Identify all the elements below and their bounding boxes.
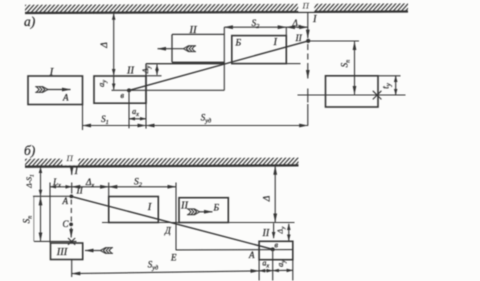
dimension Delta_x, diagram a [286,26,308,28]
svg-text:E: E [170,253,177,263]
arrow Delta_y left, diagram b [273,223,275,238]
node B dot, diagram b [271,247,275,251]
dimension Delta wall to floor line, diagram b [274,166,276,222]
node C dot, diagram b [69,223,73,227]
extension below final block right edge, diagram b [292,260,294,281]
collision star mark at block edge, diagram a [373,91,382,100]
svg-text:A: A [62,196,69,206]
svg-text:Δ: Δ [100,42,110,49]
dimension Lx, diagram b [50,186,72,188]
dimension a_x, diagram b [259,270,273,272]
extension below block I, diagram a [82,105,84,131]
faint extension line left side S_p, diagram b [33,196,35,241]
svg-text:Δ: Δ [263,195,273,202]
extension vertical at S2 right / through D to E, diagram b [175,183,177,251]
spring coil in block II, diagram b [187,209,200,215]
dimension Delta_x, diagram b [72,186,109,188]
dimension Delta (wall to block II top), diagram a [113,14,115,76]
arrow right from spring block II, diagram b [199,211,213,213]
extension vertical below P drop, diagram b [71,183,73,194]
node B dot, diagram a [127,88,131,92]
extension below point B, diagram b [272,252,274,281]
svg-text:I: I [147,202,152,213]
dimension S_p vertical, diagram b [40,197,42,241]
svg-text:A: A [248,250,255,260]
extension below point B, diagram a [128,93,130,129]
horizontal line through B level, diagram b [176,249,293,251]
dimension Delta minus S1, diagram b [40,167,42,196]
right edge of intermediate rect extended to S2 dimension [223,27,225,90]
dashed line from A to C, diagram b [70,200,72,205]
block I start position, diagram a [28,76,83,105]
svg-text:б): б) [24,143,36,158]
wall b bottom surface line [25,165,299,166]
final block rectangle, diagram a [326,76,379,107]
spring coil in launched block II [183,46,196,52]
dimension a_x small, diagram a [129,118,146,120]
block III, diagram b [51,243,83,260]
horizontal line through B, diagram a [112,89,225,91]
extension line for t_y, diagram a [378,75,401,77]
horizontal line right of point, diagram a [308,40,359,42]
svg-text:II: II [188,24,198,36]
white gap behind label P in wall b [63,152,79,165]
dimension S_p vertical, diagram a [354,42,356,95]
floor baseline, diagram b [102,222,295,224]
svg-text:П: П [302,1,310,11]
arrow A from spring in block I [47,89,71,91]
extension at bottom left chain, diagram b [71,260,73,277]
node A dot, diagram b [70,195,74,199]
dimension S1, diagram a [83,125,147,127]
vertical continuation to bottom chain, diagram a [307,89,309,103]
white gap behind label P in wall a [299,0,315,12]
svg-text:II: II [76,187,84,197]
svg-text:III: III [56,247,68,258]
dimension S2, diagram b [109,186,176,188]
trajectory diagonal A to B, diagram b [71,196,272,249]
dimension Delta_y, diagram a [156,65,158,76]
final block II rectangle, diagram b [259,241,293,259]
extension of rest-block bottom edge toward axis, diagram a [286,63,300,65]
extension vertical at Lx left end, diagram b [49,183,51,243]
dimension Delta_y, diagram b [288,224,290,241]
wall (ceiling) of diagram a - hatching [25,3,408,12]
extension below block at B right edge, diagram a [145,103,147,128]
vertical drop line from P, diagram a [307,12,309,38]
arrow into block III from spring, diagram b [85,250,100,252]
svg-text:а): а) [24,14,36,29]
svg-text:в: в [275,241,279,250]
wall a bottom surface line [25,12,408,14]
svg-text:II: II [180,201,188,212]
svg-text:П: П [66,153,74,163]
block II at point B, diagram a [94,76,146,103]
intermediate rectangle (block I displaced), diagram a [145,64,147,104]
dimension t_y, diagram a [395,76,397,95]
svg-text:C: C [63,219,70,229]
block II launched position, diagram a [171,34,173,62]
node: convergence point under P, diagram a [306,39,310,43]
collision cross X at block III, diagram b [68,238,75,245]
svg-text:II: II [126,66,134,77]
extension below final block left edge, diagram b [258,260,260,281]
svg-text:I: I [312,14,317,25]
spring coil in block I, diagram a [35,87,48,93]
extension vertical above block I, diagram b [108,183,110,197]
extension line above block III, diagram b [34,240,77,242]
dimension a_y line, diagram a [113,77,115,90]
extension line for Delta_y bottom, diagram a [146,75,162,77]
svg-text:II: II [262,228,270,239]
spring coil right of block III, diagram b [100,248,113,254]
svg-text:I: I [74,166,79,177]
svg-text:Б: Б [213,204,220,214]
extension line at 286 for S2/Delta_x [285,27,287,45]
dimension S_ud, diagram a [146,125,308,127]
dimension S2, diagram a [224,26,286,28]
horizontal line through A, diagram b [33,195,71,197]
arrow left from launched block II [158,48,184,50]
dimension S_ud, diagram b [72,271,259,274]
dashed vertical under point, diagram a [307,44,309,50]
svg-text:Б: Б [235,39,242,49]
block I, diagram b [109,197,159,223]
block B/I rest position rectangle, diagram a [232,36,286,64]
wall (ceiling) of diagram b - hatching [25,158,299,167]
dimension a_y, diagram b [273,269,293,271]
axis center line through final block, diagram a [298,94,406,96]
svg-text:A: A [62,93,69,103]
trajectory diagonal from B to point under P, diagram a [129,41,308,91]
svg-text:в: в [121,91,125,100]
arrow drop from P, diagram b [71,167,73,175]
block II with spring, diagram b [179,198,228,223]
svg-text:I: I [273,37,278,48]
arrow down from C onto block III, diagram b [70,228,72,238]
